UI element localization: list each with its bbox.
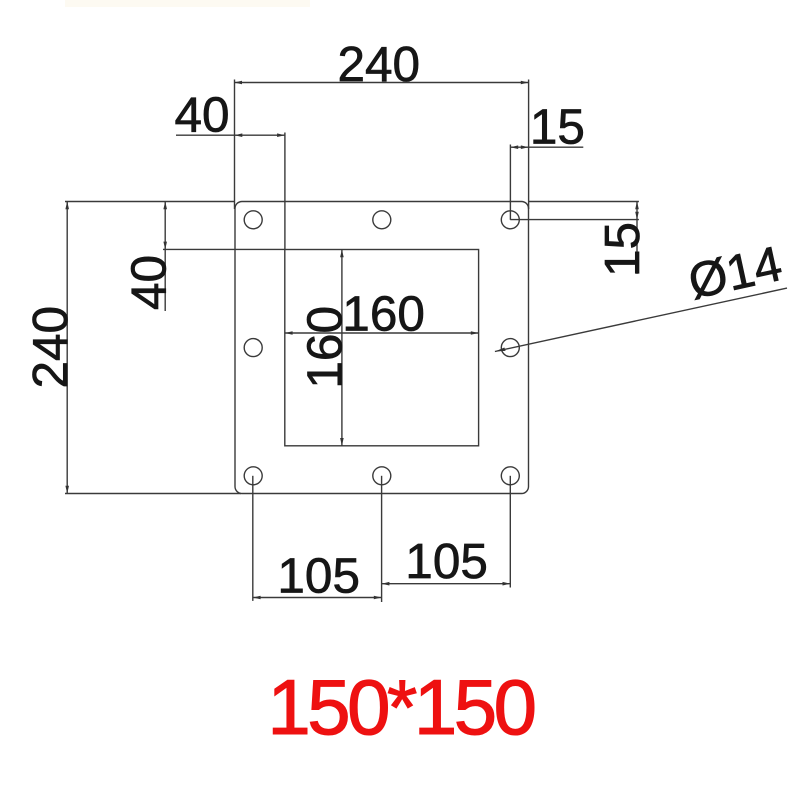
svg-text:240: 240	[338, 37, 421, 92]
svg-text:160: 160	[342, 287, 425, 342]
svg-text:15: 15	[595, 222, 650, 277]
svg-text:105: 105	[405, 534, 488, 589]
svg-text:40: 40	[174, 88, 229, 143]
svg-text:105: 105	[277, 549, 360, 604]
svg-text:240: 240	[23, 306, 78, 389]
svg-text:150*150: 150*150	[267, 663, 534, 751]
svg-text:40: 40	[121, 255, 176, 310]
svg-text:15: 15	[530, 100, 585, 155]
